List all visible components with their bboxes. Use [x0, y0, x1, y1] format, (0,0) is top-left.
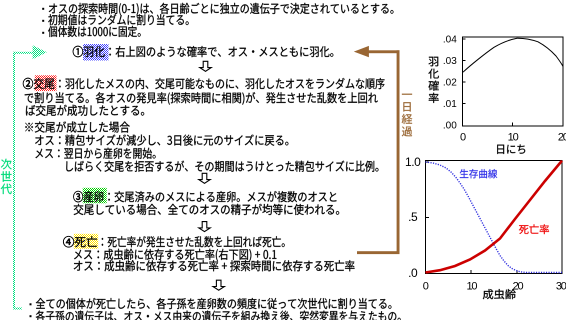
flow arrow 4 (between step4 and bottom): [213, 280, 224, 290]
svg-text:.0: .0: [408, 266, 418, 280]
top chart y ticks: [463, 39, 466, 104]
bottom chart x ticks: [471, 270, 517, 274]
label 成虫齢: [483, 289, 516, 299]
one-day loop: top horizontal: [369, 50, 400, 53]
highlight for 死亡 (step4): [74, 234, 98, 249]
text step3a: [73, 191, 103, 202]
label 生存曲線 (blue): [460, 169, 497, 178]
svg-text:10: 10: [508, 131, 519, 143]
label 日にち: [497, 144, 525, 153]
text step3a2: [108, 191, 336, 202]
text step2c: [26, 105, 144, 116]
label 一日経過: [402, 94, 412, 137]
text step1b: [109, 46, 333, 57]
bottom chart y ticks: [426, 162, 430, 218]
highlight for 産卵 (step3): [83, 188, 107, 204]
next-generation loop: bottom foot: [13, 308, 22, 310]
text step2b: [25, 92, 378, 105]
svg-text:.02: .02: [443, 78, 457, 89]
label 次世代: [1, 159, 12, 194]
top chart axes box: [463, 37, 564, 126]
svg-text:.5: .5: [408, 210, 418, 224]
bottom chart axes box: [426, 161, 563, 274]
svg-text:.00: .00: [443, 121, 457, 132]
svg-text:1.0: 1.0: [405, 155, 421, 169]
text step4c: [74, 260, 355, 271]
text step4b: [74, 249, 276, 262]
label 羽化確率 (vertical): [428, 57, 438, 103]
text note2: [35, 135, 288, 146]
text note1: [25, 121, 129, 132]
text step4a: [63, 236, 97, 247]
flow arrow 3 (between step3 and step4): [199, 222, 210, 232]
top chart x tick labels: [460, 131, 566, 143]
svg-text:.03: .03: [443, 56, 457, 67]
svg-text:0: 0: [460, 131, 466, 143]
one-day loop: vertical line: [397, 50, 400, 253]
flow arrow 2 (between notes and step3): [199, 173, 210, 183]
text line1: [49, 3, 394, 16]
svg-text:.04: .04: [443, 35, 457, 46]
top chart x tick: [511, 123, 513, 127]
text step2a: [23, 78, 54, 89]
next-generation loop: top horizontal: [13, 52, 33, 54]
svg-text:.01: .01: [443, 99, 457, 110]
bottom chart x tick labels: [423, 281, 566, 293]
text step3b: [74, 204, 339, 215]
blue survival curve (dotted): [426, 162, 563, 273]
svg-text:10: 10: [466, 281, 477, 293]
one-day loop: arrowhead: [354, 46, 369, 57]
top chart y tick labels: [443, 35, 457, 132]
bullet dots: [42, 8, 44, 10]
text step1: [73, 46, 105, 57]
svg-text:20: 20: [558, 131, 566, 143]
text step2a2: [59, 78, 384, 89]
highlight for 羽化 (step1): [83, 44, 109, 61]
red mortality curve: [426, 161, 563, 273]
text bottom2: [36, 311, 401, 320]
one-day loop: bottom horizontal: [357, 251, 400, 254]
svg-text:0: 0: [423, 281, 429, 293]
text note3: [35, 148, 155, 159]
next-generation loop: vertical line: [13, 52, 15, 308]
text step4a2: [102, 236, 285, 247]
svg-text:30: 30: [556, 281, 566, 293]
label 死亡率 (red): [519, 224, 549, 234]
text line2: [48, 14, 188, 25]
text line3: [48, 26, 141, 37]
flow arrow 1 (between step1 and step2): [200, 61, 211, 71]
next-generation loop: arrowhead: [33, 45, 47, 59]
highlight for 交尾 (step2): [35, 75, 57, 91]
top chart curve: [463, 38, 563, 72]
text note4: [66, 161, 378, 172]
text bottom1: [36, 298, 392, 309]
bottom chart y tick labels: [405, 155, 421, 280]
